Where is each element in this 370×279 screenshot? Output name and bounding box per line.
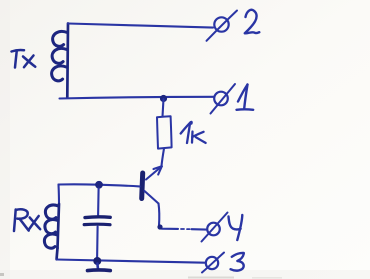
transistor Q1 base bar	[142, 173, 143, 199]
wire: top-left vertical of Rx tank	[57, 185, 60, 205]
wire: node to resistor	[163, 99, 164, 117]
label 3	[231, 253, 244, 271]
junction + ground tick	[93, 257, 101, 265]
emitter corner blob	[157, 224, 162, 229]
label 4	[229, 215, 243, 240]
terminal 4	[202, 213, 228, 242]
terminal 3	[202, 253, 224, 273]
wire: bottom rail to terminal 3	[57, 260, 205, 263]
transistor Q1 collector lead + arrow	[146, 167, 162, 180]
wire: base from node	[59, 184, 140, 186]
capacitor C1	[97, 189, 100, 216]
resistor R (1k)	[157, 116, 172, 148]
faint scan marks bottom edge	[188, 277, 234, 279]
label Rx	[14, 209, 40, 231]
wire: Tx bottom to terminal 1	[60, 97, 215, 99]
wire: emitter to terminal 4	[159, 226, 178, 229]
label Tx	[12, 50, 36, 67]
label 2	[245, 10, 259, 34]
label 1	[237, 85, 254, 110]
inductor Rx (coil)	[44, 204, 59, 259]
transistor Q1 emitter lead	[145, 191, 159, 204]
terminal 1	[211, 84, 236, 114]
terminal 2	[207, 11, 238, 41]
node (top of capacitor)	[95, 181, 103, 189]
label 1к	[181, 122, 206, 143]
inductor Tx (coil)	[52, 24, 68, 98]
wire: resistor to collector	[162, 149, 165, 167]
wire: Tx top to terminal 2	[68, 24, 213, 28]
junction node (collector net)	[160, 95, 167, 102]
